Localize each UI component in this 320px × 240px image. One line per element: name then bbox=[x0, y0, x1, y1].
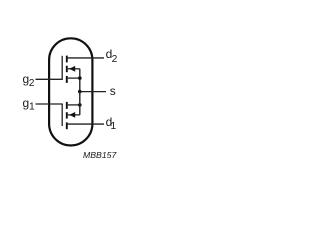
svg-text:1: 1 bbox=[111, 121, 117, 132]
svg-text:s: s bbox=[110, 84, 116, 98]
svg-text:2: 2 bbox=[29, 78, 35, 89]
svg-text:MBB157: MBB157 bbox=[83, 150, 117, 160]
svg-text:2: 2 bbox=[112, 54, 118, 65]
svg-text:1: 1 bbox=[29, 102, 35, 113]
